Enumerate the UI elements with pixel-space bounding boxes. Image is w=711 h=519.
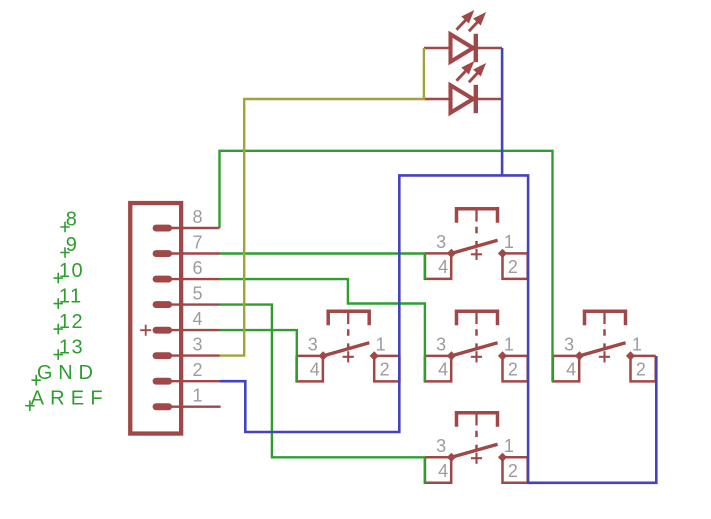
pushbutton switch S5 [425,413,528,483]
wire net GND main loop [220,175,657,482]
connector J1 pin 3 [153,334,220,359]
connector J1 pin 8 [153,207,220,232]
connector J1 pin 2 [153,360,220,385]
net label 12 [54,311,85,335]
net label 10 [54,260,85,284]
svg-text:4: 4 [193,309,203,329]
connector J1 pin 5 [153,283,220,308]
wire net 11: pin5 to S5 [220,305,425,484]
wire net 9: pin7 to S1 [220,254,425,280]
LED LED2 [424,63,502,113]
LED LED1 [424,12,502,63]
svg-text:5: 5 [193,283,203,303]
wire net 8: pin8 to S4 [220,151,553,382]
connector J1 body [130,203,181,433]
net label GND [32,362,99,386]
svg-text:3: 3 [193,334,203,354]
pushbutton switch S3 [425,311,528,381]
net label AREF [25,387,109,411]
net label 9 [60,234,77,258]
wire net GND branch to LED cathodes [501,48,504,175]
wire net 12: pin4 to S2 [220,330,297,381]
svg-text:8: 8 [193,207,203,227]
connector J1 pin 6 [153,258,220,283]
connector J1 origin cross [140,325,151,336]
net label 13 [54,336,85,360]
svg-text:2: 2 [193,360,203,380]
connector J1 pin 1 [153,386,221,411]
pushbutton switch S2 [297,311,400,381]
svg-text:AREF: AREF [31,387,109,409]
wire net 10: pin6 to S3 [220,279,425,381]
connector J1 pin 4 [153,309,220,334]
pushbutton switch S1 [425,209,528,279]
svg-text:1: 1 [193,386,203,406]
pushbutton switch S4 [553,311,656,381]
net label 11 [54,285,83,309]
svg-text:7: 7 [193,232,203,252]
svg-text:GND: GND [37,362,99,384]
net label 8 [60,209,77,233]
svg-text:6: 6 [193,258,203,278]
wire net 13: pin3 to LED anodes [220,48,424,356]
connector J1 pin 7 [153,232,220,257]
